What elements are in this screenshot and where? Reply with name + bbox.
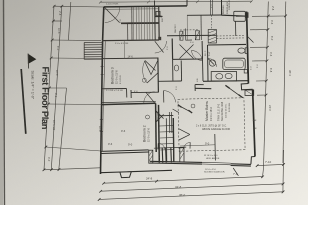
entry bay header line (154, 147, 186, 148)
bottom wall left of slider (150, 161, 202, 162)
hall bath toilet (174, 65, 178, 71)
lower hall door V (179, 129, 190, 140)
bedroom2 bottom wall double (101, 150, 149, 152)
entry french door swing left (157, 143, 159, 149)
top bump interior line (200, 15, 202, 40)
bath left wall (207, 45, 210, 81)
kitchen corner counter L (186, 29, 193, 41)
bedroom2 door V (156, 111, 163, 121)
bottom-left dim line A (44, 168, 100, 170)
bedroom2 right wall (155, 103, 158, 152)
closet mid vertical wall (171, 39, 173, 60)
bottom bay trapezoid (120, 172, 131, 178)
toilet bowl (238, 48, 245, 53)
left dim extension line 1 (44, 6, 54, 170)
right dim rotated texts (268, 6, 292, 111)
top wall right of bump (222, 15, 247, 16)
stair rail end (127, 23, 129, 40)
bath door leaf (208, 59, 214, 65)
closet bottom wall (173, 58, 203, 60)
shower circle (209, 60, 215, 66)
bottom dim line D1 (104, 177, 263, 184)
left dim branch y58 (51, 57, 102, 60)
stair treads (134, 7, 156, 40)
sliding door opening thin lines (202, 161, 231, 164)
kitchen-bath wall (167, 34, 217, 37)
hall bath right wall (180, 61, 182, 82)
stair bottom wall (103, 39, 159, 42)
hall top wall (102, 103, 156, 104)
kitchen rotated label (221, 1, 229, 14)
left dim tick marks (43, 5, 64, 171)
bedroom2 label rotated (143, 125, 151, 142)
right dim branch y29 (250, 29, 268, 31)
wall segment x202 vertical (201, 41, 203, 59)
bedroom3 bottom wall (102, 88, 127, 90)
master entry door leaf (180, 106, 191, 112)
bottom dim line D3 (99, 192, 283, 200)
right dim branch y61 (252, 60, 267, 62)
right wall window ticks (253, 119, 256, 121)
bath bottom wall (203, 80, 248, 83)
closet left wall (158, 105, 161, 163)
foyer ceiling break line (123, 41, 125, 58)
shower box nook (245, 90, 254, 95)
closet door arc upper (192, 51, 203, 61)
laundry dashed lines (217, 35, 246, 37)
wall post hatch 2 (195, 31, 199, 40)
master labels rotated (205, 101, 231, 121)
stair right wall (158, 7, 161, 40)
fireplace box (234, 11, 246, 21)
window tick left wall lower (100, 118, 103, 120)
left outer wall upper (103, 7, 104, 41)
hall end walls near master (195, 84, 204, 86)
master bottom wall right part (231, 163, 251, 166)
porch slab edge line (100, 170, 172, 172)
bedroom3 door leaf 1 (145, 61, 156, 71)
top wall inner face (105, 8, 159, 11)
bath corner fixture (244, 70, 247, 73)
bottom dim ticks (98, 163, 285, 201)
master top wall (195, 87, 211, 89)
door leaf right top (248, 37, 254, 43)
left dim branch y147 (46, 147, 101, 151)
small dim texts floating in plan (106, 0, 259, 93)
master bath diagonal door leaf (228, 87, 241, 96)
left dim branch y104 (48, 103, 102, 106)
master ceiling dashed box (178, 98, 245, 151)
left dim branch y21 (53, 20, 62, 22)
stair entry door leaf (105, 8, 120, 23)
hall mid vertical (130, 90, 132, 98)
bifold closet X doors 2 (145, 61, 158, 75)
master ceiling note horizontal (196, 125, 230, 132)
patio step mark (233, 168, 238, 176)
closet inner double wall (168, 112, 171, 133)
bottom dim extension right x263 (263, 168, 264, 177)
closet top wall (159, 114, 173, 116)
bottom dim line D2 (101, 184, 284, 191)
left dim extension line 2 (51, 6, 62, 170)
fireplace side wall (235, 21, 237, 36)
stair wall foot blob (158, 37, 161, 40)
top outer wall (104, 6, 187, 7)
entry texts (159, 148, 225, 174)
bath door arc (208, 59, 217, 67)
bottom dim texts (146, 160, 272, 197)
hall top wall upper line (102, 101, 156, 102)
bay door frame 2 (165, 147, 168, 162)
upper area rotated texts (smudge) (162, 17, 211, 56)
left dim branch y40 (52, 39, 101, 42)
window tag circle b3 (142, 78, 146, 82)
sink 1 (216, 74, 223, 79)
master bottom interior line (180, 145, 215, 146)
right dim branch y95 (257, 94, 266, 96)
bath top wall (208, 43, 246, 46)
title pennant triangle (28, 54, 36, 64)
bedroom3 label (rotated) (111, 67, 123, 84)
foyer bottom wall (102, 57, 158, 60)
left outer wall mid (102, 41, 103, 105)
hall mid horizontal wall (131, 91, 158, 93)
right dim branch y81 (256, 80, 266, 82)
fireplace inner mark (236, 15, 243, 17)
bedroom3 closet wall vertical (126, 89, 128, 98)
bedroom2 hall door leaf (146, 92, 155, 103)
master bay window vertical (214, 134, 217, 161)
closet shelves (160, 125, 174, 127)
wall anchor blob (245, 12, 248, 17)
right dim extension line R2 (283, 2, 286, 164)
right wall nook step (241, 84, 252, 90)
window tick left wall upper (101, 65, 104, 67)
bottom dim extension right x283 (282, 150, 285, 192)
page left margin strip (0, 0, 3, 205)
right dim ticks (265, 15, 287, 97)
stair entry door arc (105, 7, 120, 22)
closet mid wall (165, 118, 168, 162)
left dim extension line 4 (upper short) (68, 2, 70, 41)
toilet tank (245, 48, 248, 54)
stair newel tick (155, 15, 163, 17)
top-right short dim line (257, 164, 284, 165)
wic right wall (202, 59, 205, 81)
stair hall door leaf (155, 41, 164, 52)
left wall inner face line (103, 41, 105, 104)
master bottom-right corner step (251, 157, 255, 165)
entry french door swing right (189, 142, 191, 148)
stair tread left boundary (131, 7, 133, 40)
wall post hatch 1 (180, 31, 183, 40)
bay door frame 1 (161, 148, 164, 163)
bifold closet X doors 1 (180, 45, 194, 59)
right outer wall upper (247, 12, 249, 84)
closet top door marks (173, 109, 179, 113)
top bump right wall (221, 0, 223, 15)
hall bath bottom wall (159, 80, 182, 82)
porch steps outside left wall (83, 43, 85, 60)
bay left post hatched (149, 150, 153, 163)
left dim branch y88 (49, 87, 66, 89)
right dim extension line R1 (264, 2, 269, 169)
bathtub (223, 58, 245, 69)
wic door arc (192, 50, 203, 60)
vanity counter (211, 72, 236, 81)
wall below closet (172, 59, 174, 80)
kitchen left wall (154, 1, 157, 41)
tag circle master (191, 104, 195, 108)
left outer wall lower (101, 104, 102, 174)
right outer wall lower (master) (253, 89, 255, 156)
bay post hatched right (180, 148, 184, 162)
hall door leaf 1 (163, 91, 165, 103)
master left wall (172, 118, 174, 162)
pennant pole (27, 54, 30, 69)
tag circle b2 (146, 115, 150, 119)
left dim branch y7 to wall (54, 5, 104, 8)
page edge line (4, 0, 5, 205)
chimney hatched block (208, 30, 216, 44)
closet right wall (172, 118, 175, 162)
kitchen counter dashed (180, 29, 198, 31)
sink 2 (225, 73, 232, 78)
left dim rotated texts (47, 11, 102, 162)
left dim extension line 3 (59, 88, 67, 170)
bedroom3 door leaf 2 (147, 73, 158, 83)
top bump left wall (186, 0, 188, 6)
right dim branch y47 (250, 46, 267, 48)
foyer right wall (157, 58, 160, 92)
bump centerline dashed (211, 15, 213, 29)
bedroom2 interior dim texts (108, 129, 133, 147)
bump mullion pair (210, 0, 212, 15)
top bump bottom edge (187, 14, 222, 16)
stair newel box (156, 11, 160, 15)
title underline (21, 69, 26, 134)
right dim branch y16 (252, 15, 286, 17)
bay door frame 3 (170, 147, 173, 162)
bedroom3 door arc (143, 61, 147, 84)
bump lower faint line (186, 15, 188, 40)
hall door arc 1 (164, 91, 176, 103)
stair center stringer (121, 22, 159, 24)
